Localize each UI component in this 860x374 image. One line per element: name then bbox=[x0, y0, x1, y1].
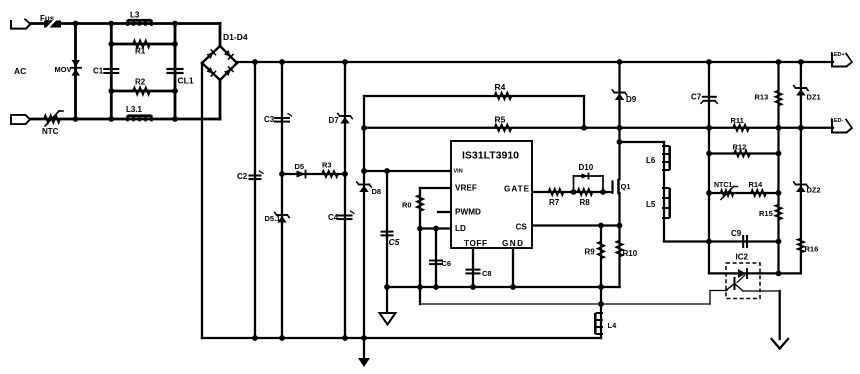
svg-text:R12: R12 bbox=[733, 143, 747, 152]
svg-text:C2: C2 bbox=[237, 172, 248, 181]
svg-text:R8: R8 bbox=[580, 198, 591, 207]
svg-text:R1: R1 bbox=[135, 47, 146, 56]
svg-text:R13: R13 bbox=[755, 93, 769, 102]
svg-text:MOV: MOV bbox=[55, 65, 72, 74]
svg-text:DZ1: DZ1 bbox=[807, 93, 821, 102]
svg-text:IC2: IC2 bbox=[736, 253, 749, 262]
svg-text:DZ2: DZ2 bbox=[807, 186, 821, 195]
svg-text:R16: R16 bbox=[805, 245, 819, 254]
svg-text:L4: L4 bbox=[608, 321, 618, 330]
svg-text:D9: D9 bbox=[626, 95, 637, 104]
svg-text:CL1: CL1 bbox=[178, 76, 194, 86]
svg-text:R7: R7 bbox=[549, 198, 560, 207]
svg-text:VIN: VIN bbox=[454, 169, 463, 175]
svg-text:NTC1: NTC1 bbox=[714, 182, 732, 189]
svg-text:D7: D7 bbox=[329, 116, 340, 125]
svg-text:D8: D8 bbox=[372, 187, 382, 196]
svg-text:PWMD: PWMD bbox=[455, 208, 481, 217]
svg-text:R4: R4 bbox=[495, 82, 506, 92]
svg-text:C8: C8 bbox=[482, 269, 492, 278]
svg-text:R3: R3 bbox=[322, 161, 332, 170]
svg-text:R2: R2 bbox=[135, 78, 146, 87]
svg-text:C7: C7 bbox=[691, 93, 702, 102]
svg-text:R5: R5 bbox=[495, 115, 506, 125]
svg-text:L5: L5 bbox=[646, 200, 656, 209]
svg-text:L3: L3 bbox=[130, 11, 140, 20]
svg-text:R0: R0 bbox=[402, 201, 412, 210]
svg-text:C5: C5 bbox=[389, 237, 400, 247]
svg-text:R11: R11 bbox=[731, 116, 744, 125]
svg-text:NTC: NTC bbox=[42, 127, 59, 136]
svg-text:C1: C1 bbox=[93, 67, 104, 76]
svg-text:D5.1: D5.1 bbox=[265, 214, 281, 223]
svg-text:TOFF: TOFF bbox=[464, 239, 488, 248]
svg-text:C3: C3 bbox=[264, 115, 275, 124]
svg-text:C6: C6 bbox=[442, 259, 452, 268]
svg-text:D1-D4: D1-D4 bbox=[223, 32, 248, 42]
svg-text:IS31LT3910: IS31LT3910 bbox=[462, 150, 519, 162]
svg-text:R14: R14 bbox=[749, 180, 764, 189]
svg-text:R9: R9 bbox=[585, 248, 596, 257]
svg-text:GND: GND bbox=[502, 239, 524, 248]
svg-text:Q1: Q1 bbox=[621, 182, 631, 191]
svg-text:VREF: VREF bbox=[455, 184, 477, 193]
svg-text:R15: R15 bbox=[759, 209, 773, 218]
svg-text:C4: C4 bbox=[328, 213, 339, 222]
svg-text:D10: D10 bbox=[579, 163, 594, 172]
svg-text:D5: D5 bbox=[295, 162, 305, 171]
svg-text:LED+: LED+ bbox=[831, 52, 845, 58]
svg-text:L6: L6 bbox=[646, 156, 656, 165]
svg-text:LED-: LED- bbox=[831, 118, 844, 124]
svg-text:GATE: GATE bbox=[504, 185, 530, 194]
svg-text:LD: LD bbox=[455, 224, 466, 233]
svg-text:C9: C9 bbox=[731, 229, 742, 238]
svg-text:AC: AC bbox=[14, 66, 26, 76]
svg-text:R10: R10 bbox=[623, 249, 638, 258]
svg-text:L3.1: L3.1 bbox=[126, 105, 143, 114]
svg-text:CS: CS bbox=[516, 223, 528, 232]
